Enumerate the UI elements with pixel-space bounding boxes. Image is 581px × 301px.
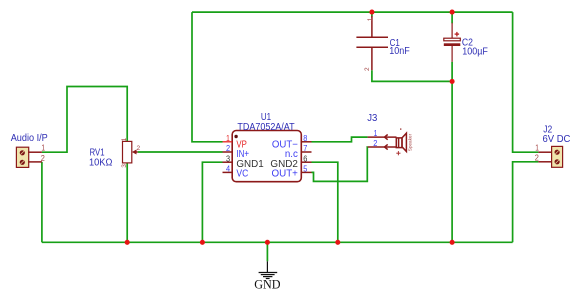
junction rail / GND sym xyxy=(265,240,270,245)
J3 dot mark xyxy=(400,128,401,129)
connector J3 speaker xyxy=(368,133,407,151)
wire GND2 to rail xyxy=(312,162,338,242)
svg-text:6V DC: 6V DC xyxy=(543,134,571,145)
wire OUT- to J3 pin 1 xyxy=(312,137,368,142)
wire OUT+ to J3 pin 2 xyxy=(312,147,368,181)
svg-text:3: 3 xyxy=(226,154,230,163)
svg-text:1: 1 xyxy=(226,134,230,143)
svg-text:Audio I/P: Audio I/P xyxy=(11,133,48,144)
connector J1 Audio I/P xyxy=(16,147,42,167)
svg-text:10KΩ: 10KΩ xyxy=(89,157,113,168)
svg-text:2: 2 xyxy=(137,145,141,152)
op-amp IC U1 TDA7052A/AT xyxy=(223,131,312,182)
wire C2 bottom drop to bottom rail xyxy=(451,62,453,242)
svg-text:100µF: 100µF xyxy=(462,46,488,57)
svg-text:3: 3 xyxy=(121,164,128,168)
junction rail / GND1 xyxy=(200,240,205,245)
svg-text:2: 2 xyxy=(41,154,45,163)
svg-text:GND: GND xyxy=(254,277,280,292)
svg-text:Speaker: Speaker xyxy=(407,133,412,151)
svg-text:J3: J3 xyxy=(367,113,378,124)
wire GND1 to rail xyxy=(202,162,222,242)
svg-text:6: 6 xyxy=(303,154,307,163)
junction rail / GND2 xyxy=(335,240,340,245)
svg-text:2: 2 xyxy=(226,144,230,153)
svg-text:OUT+: OUT+ xyxy=(272,169,299,180)
svg-text:7: 7 xyxy=(303,144,307,153)
junction C1/C2 bottom xyxy=(450,79,455,84)
svg-text:1: 1 xyxy=(41,144,45,153)
wire J2 pin 2 drop to bottom rail xyxy=(513,162,539,243)
svg-text:1: 1 xyxy=(374,129,378,138)
svg-text:VC: VC xyxy=(236,169,248,180)
wire C2 top stub xyxy=(451,12,453,23)
svg-text:5: 5 xyxy=(303,165,308,174)
pin stubs right xyxy=(301,141,311,143)
wire C1 top stub xyxy=(371,12,373,16)
svg-text:2: 2 xyxy=(535,153,539,162)
ground symbol xyxy=(259,261,278,278)
capacitor C1 xyxy=(356,16,388,70)
wire Audio pin 2 drop xyxy=(41,162,43,242)
junction rail / RV1 xyxy=(125,240,130,245)
junction rail / C2 xyxy=(450,240,455,245)
junction top rail / C1 xyxy=(369,10,374,15)
pin stub 1 (highlighted) xyxy=(223,141,233,143)
wire bottom ground rail xyxy=(42,241,513,243)
capacitor C2 (polarized) xyxy=(444,23,461,62)
svg-text:10nF: 10nF xyxy=(389,46,410,57)
junction top rail / C2 xyxy=(450,10,455,15)
svg-text:1: 1 xyxy=(367,17,374,21)
svg-text:1: 1 xyxy=(535,144,539,153)
wire GND symbol stub xyxy=(266,242,268,261)
svg-text:2: 2 xyxy=(373,139,377,148)
svg-text:1: 1 xyxy=(121,137,128,141)
wire top supply rail xyxy=(192,11,513,13)
connector J2 6V DC xyxy=(538,146,562,167)
wire VP net riser from U1 pin 1 xyxy=(192,12,223,142)
svg-text:TDA7052A/AT: TDA7052A/AT xyxy=(237,122,294,133)
wire Audio pin 1 loop to RV1 top xyxy=(42,87,127,153)
wire right drop to J2 pin 1 xyxy=(513,12,539,152)
potentiometer RV1 xyxy=(123,141,138,163)
svg-text:4: 4 xyxy=(226,165,231,174)
wire RV1 bottom to rail xyxy=(126,163,128,242)
J3 plus mark xyxy=(396,151,400,155)
wire RV1 wiper to IN+ xyxy=(138,151,223,153)
svg-text:8: 8 xyxy=(303,134,307,143)
pin stubs left xyxy=(223,151,233,153)
wire C1 bottom to C2 bottom xyxy=(372,70,452,81)
svg-text:2: 2 xyxy=(364,67,371,71)
polarity dot xyxy=(234,135,237,138)
